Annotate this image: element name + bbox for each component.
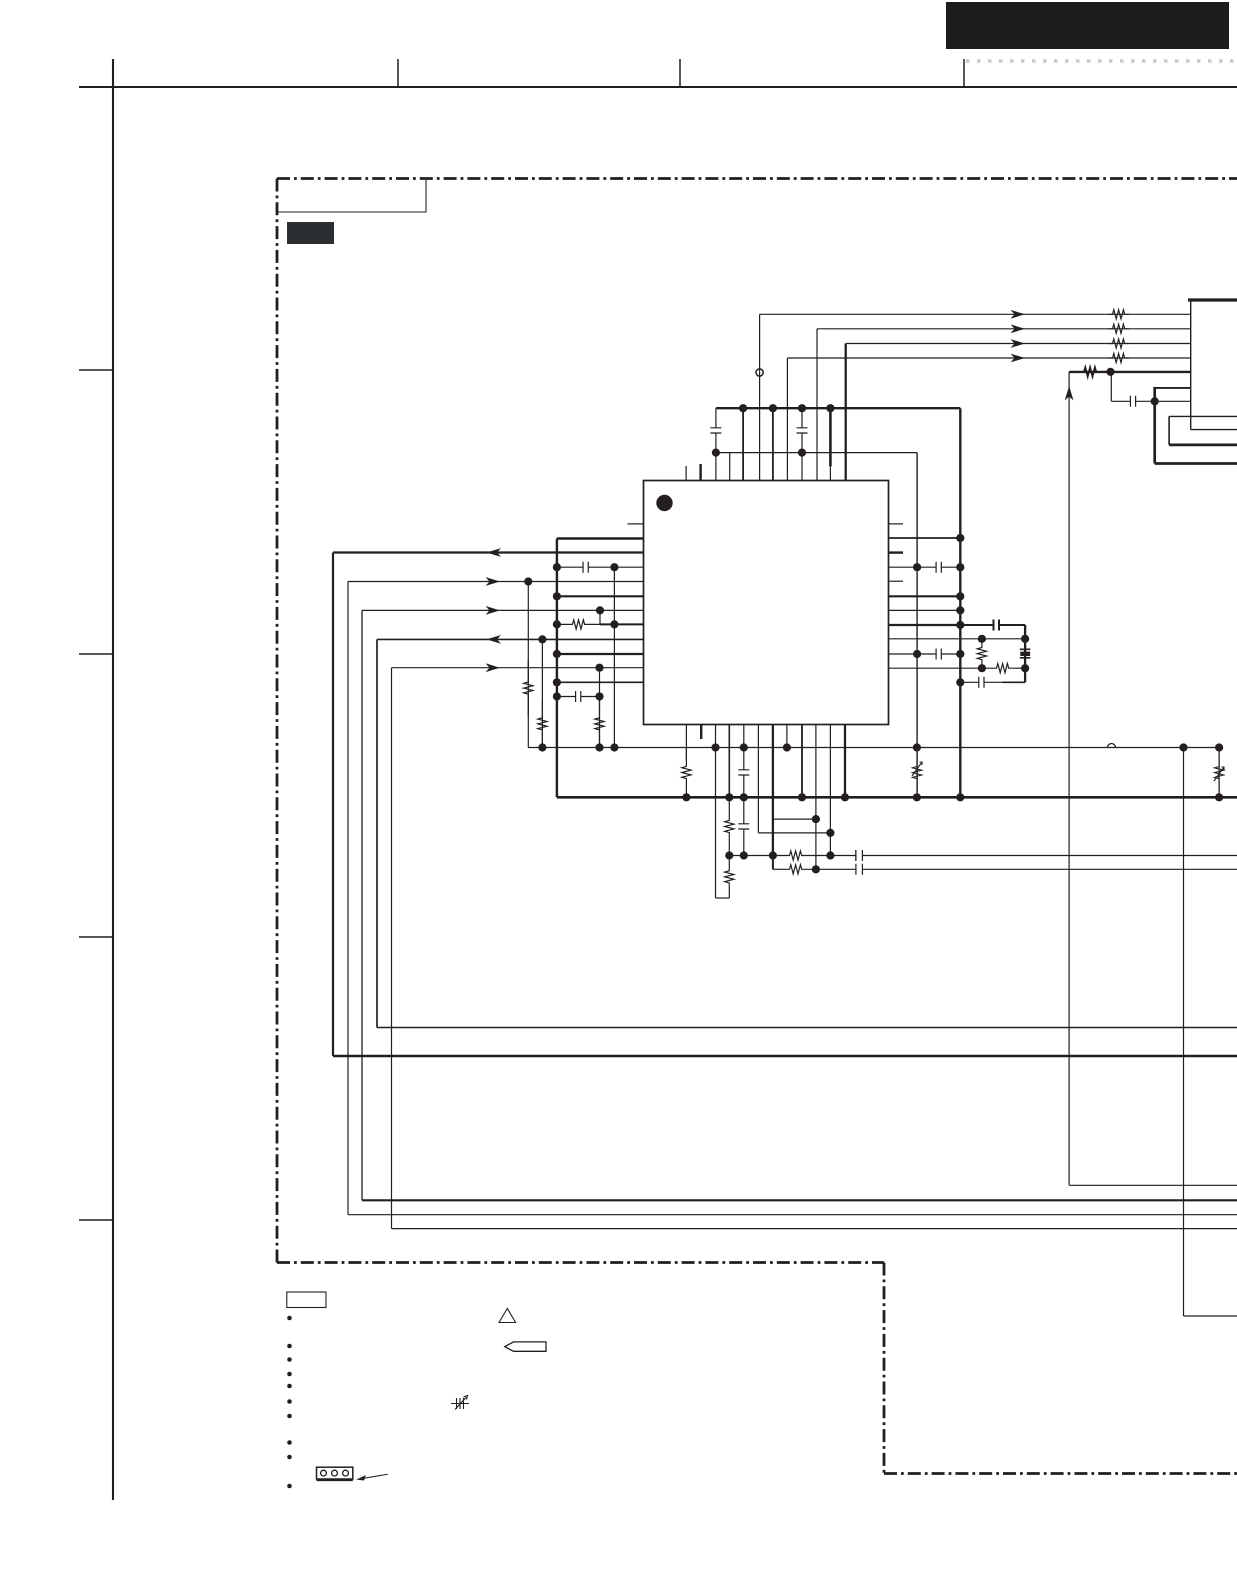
vertical line from W4 junction bbox=[541, 639, 543, 747]
junction bbox=[610, 563, 618, 571]
connector block CN1 top edge thick bbox=[1188, 298, 1237, 301]
junction bbox=[1021, 635, 1029, 643]
varistor RV2 bbox=[1215, 753, 1224, 792]
ic right pin to bus 2 bbox=[889, 595, 961, 597]
vertical line x614 bbox=[613, 567, 615, 747]
wire branch bbox=[773, 818, 816, 820]
arrow A3 bbox=[1011, 339, 1026, 348]
wire A5 cap branch vertical bbox=[1110, 372, 1112, 401]
signal wire A1 vertical bbox=[759, 314, 761, 480]
junction bbox=[978, 664, 986, 672]
ic right pin xtal top thick bbox=[889, 624, 961, 626]
frame tick top 1 bbox=[397, 59, 399, 87]
boundary bottom edge right bbox=[884, 1472, 1237, 1475]
connector block CN1 bottom edge bbox=[1191, 429, 1237, 431]
capacitor C10 plates bbox=[856, 850, 863, 861]
boundary bottom edge left bbox=[277, 1261, 884, 1264]
resistor R13 bbox=[725, 797, 734, 855]
sense wire bottom bbox=[1069, 1184, 1237, 1186]
junction bbox=[553, 620, 561, 628]
ic bottom pin thick bbox=[772, 725, 774, 856]
signal wire W5 bbox=[392, 667, 644, 669]
junction on VDD rail bbox=[826, 404, 834, 412]
wire R6 to ic thick bbox=[600, 623, 644, 625]
junction W2 bbox=[524, 577, 532, 585]
routing W1 vertical bbox=[332, 553, 334, 1057]
wire pin bbox=[742, 408, 744, 480]
wire A5 cap branch horizontal bbox=[1111, 396, 1154, 407]
connector block CN1 left edge bbox=[1190, 300, 1192, 430]
arrow W1 left bbox=[487, 548, 502, 557]
wire cap branch to box bbox=[1155, 400, 1191, 402]
ic bottom pin bbox=[801, 725, 803, 798]
junction W4 bbox=[538, 635, 546, 643]
wire pin bbox=[715, 453, 717, 481]
capacitor C5 bbox=[917, 562, 960, 573]
junction bbox=[956, 678, 964, 686]
ic bottom pin bbox=[786, 725, 788, 748]
title block (redacted) bbox=[946, 2, 1229, 49]
arrow W3 right bbox=[486, 606, 501, 615]
ic U1 pin-1 marker bbox=[656, 495, 672, 511]
ic bottom pin bbox=[743, 725, 745, 748]
arrow A1 bbox=[1011, 310, 1026, 319]
junction bbox=[595, 743, 603, 751]
junction bbox=[956, 621, 964, 629]
junction bbox=[956, 563, 964, 571]
capacitor C7 bbox=[917, 649, 960, 660]
legend bullet 3 bbox=[287, 1357, 292, 1362]
junction on VDD rail bbox=[798, 404, 806, 412]
vertical sense wire with up arrow bbox=[1068, 372, 1070, 1185]
capacitor C11 plates bbox=[855, 864, 863, 875]
vertical line from W2 junction bbox=[527, 582, 529, 748]
ic bottom pin bbox=[757, 725, 759, 833]
capacitor C1 bbox=[710, 408, 721, 452]
junction cap branch bbox=[1151, 397, 1159, 405]
junction bbox=[1179, 743, 1187, 751]
wire lower pair top b bbox=[808, 855, 1237, 857]
wire pin bbox=[772, 408, 774, 480]
resistor R3 bbox=[1108, 339, 1129, 348]
legend bullet 8 bbox=[287, 1440, 292, 1445]
ic bottom pin bbox=[715, 725, 717, 899]
junction bbox=[783, 743, 791, 751]
capacitor C9 bbox=[738, 797, 749, 855]
perforation marks bbox=[966, 59, 1237, 63]
ic left pin thick bbox=[557, 595, 644, 597]
wire pin to C7 bbox=[889, 653, 918, 655]
boundary top edge bbox=[277, 177, 1237, 180]
ic left pin stub bbox=[628, 523, 644, 525]
bus bar bottom thick bbox=[1155, 462, 1237, 465]
bus mid vertical bbox=[916, 453, 918, 798]
junction bbox=[769, 851, 777, 859]
routing W2 horizontal bbox=[348, 1214, 1237, 1216]
wire R11 to xtal bbox=[1015, 667, 1025, 669]
wire pin bbox=[829, 466, 831, 480]
junction bbox=[956, 606, 964, 614]
wire pin stub thick bbox=[699, 464, 701, 481]
signal wire A4 horizontal bbox=[787, 357, 1190, 359]
resistor R16 bbox=[783, 865, 808, 874]
varistor RV1 bbox=[913, 753, 922, 792]
ic bottom pin bbox=[829, 725, 831, 856]
resistor R4 bbox=[1108, 353, 1129, 362]
rail VDD (thick) above IC bbox=[716, 407, 960, 409]
legend connector symbol bbox=[317, 1467, 353, 1479]
frame tick left 2 bbox=[79, 653, 113, 655]
junction on VDD rail bbox=[769, 404, 777, 412]
routing W4 vertical bbox=[376, 639, 378, 1027]
wire rail sub corner bbox=[916, 452, 918, 454]
wire C3 to ic bbox=[614, 566, 643, 568]
junction bbox=[740, 743, 748, 751]
frame tick top 3 bbox=[963, 59, 965, 87]
junction bbox=[1021, 664, 1029, 672]
wire pin to C5 bbox=[889, 566, 918, 568]
junction bbox=[913, 650, 921, 658]
routing W3 vertical bbox=[361, 610, 363, 1200]
wire pin thick stub bbox=[829, 408, 832, 466]
bus bar vertical thick bbox=[1153, 387, 1156, 464]
wire xtal bottom link bbox=[1003, 681, 1026, 683]
rail sub above IC bbox=[716, 452, 917, 454]
routing W1 horizontal thick bbox=[333, 1055, 1237, 1057]
frame vertical border line bbox=[112, 59, 114, 1500]
legend trimmer symbol bbox=[451, 1396, 469, 1410]
wire lower pair bottom bbox=[773, 868, 783, 870]
ic right pin stub bbox=[889, 523, 904, 525]
junction bbox=[740, 851, 748, 859]
junction bbox=[812, 865, 820, 873]
junction bbox=[978, 635, 986, 643]
legend connector pointer arrow bbox=[358, 1474, 388, 1480]
junction bbox=[826, 829, 834, 837]
ic right pin to bus bbox=[889, 537, 961, 539]
junction bbox=[682, 793, 690, 801]
junction bbox=[798, 793, 806, 801]
wire L link bbox=[716, 897, 730, 899]
arrow W5 right bbox=[486, 663, 501, 672]
legend bullet 4 bbox=[287, 1372, 292, 1377]
legend arrow-tag symbol bbox=[505, 1342, 546, 1351]
routing W3 horizontal thick bbox=[362, 1199, 1237, 1201]
junction bbox=[826, 851, 834, 859]
legend bullet 6 bbox=[287, 1399, 292, 1404]
routing W5 vertical bbox=[391, 668, 393, 1229]
arrow A2 bbox=[1011, 324, 1026, 333]
wire pin bbox=[801, 453, 803, 481]
resistor R14 bbox=[725, 856, 734, 899]
arrow A4 bbox=[1011, 354, 1026, 363]
junction bbox=[610, 620, 618, 628]
left bus vertical thick bbox=[556, 539, 558, 798]
varistor RV2 arrow bbox=[1214, 767, 1224, 781]
resistor R12 bbox=[682, 748, 691, 798]
capacitor C8 bbox=[738, 748, 749, 798]
wire drop bbox=[772, 856, 774, 870]
junction bbox=[553, 692, 561, 700]
resistor R15 bbox=[783, 851, 808, 860]
junction bbox=[1215, 793, 1223, 801]
signal wire A1 horizontal bbox=[760, 313, 1191, 315]
legend note box bbox=[287, 1292, 326, 1308]
junction bbox=[538, 743, 546, 751]
ic bottom pin thick stub bbox=[700, 725, 702, 740]
resistor R2 bbox=[1108, 324, 1129, 333]
frame tick left 3 bbox=[79, 936, 113, 938]
wire into CN1 bbox=[1155, 387, 1191, 389]
junction bbox=[913, 793, 921, 801]
frame tick left 4 bbox=[79, 1219, 113, 1221]
boundary step vertical edge bbox=[883, 1263, 886, 1474]
legend bullet 2 bbox=[287, 1344, 292, 1349]
resistor R9 bbox=[595, 700, 604, 748]
junction bbox=[711, 743, 719, 751]
ic right pin stub2 bbox=[889, 580, 904, 582]
resistor R5 bbox=[1078, 367, 1102, 376]
junction bbox=[595, 692, 603, 700]
junction bbox=[553, 563, 561, 571]
legend bullet 1 bbox=[287, 1316, 292, 1321]
capacitor C2 bbox=[797, 408, 808, 452]
junction bbox=[956, 592, 964, 600]
frame tick top 2 bbox=[679, 59, 681, 87]
ic U1 body bbox=[644, 481, 889, 725]
xtal right vertical thick bbox=[1024, 625, 1026, 682]
ic bottom pin thick bbox=[844, 725, 846, 798]
resistor R1 bbox=[1108, 310, 1129, 319]
resistor R11 bbox=[990, 664, 1015, 673]
wire pin stub bbox=[685, 466, 687, 481]
legend triangle symbol bbox=[499, 1309, 516, 1323]
junction bbox=[812, 815, 820, 823]
sheet name callout box bbox=[277, 179, 426, 213]
resistor R8 bbox=[538, 700, 547, 748]
signal wire W1 thick bbox=[333, 551, 644, 553]
junction bbox=[725, 851, 733, 859]
ferrite bead FB1 bbox=[756, 369, 763, 376]
ic bottom pin bbox=[728, 725, 730, 798]
arrow W2 right bbox=[486, 577, 501, 586]
wire R6 link vertical bbox=[599, 610, 601, 624]
inner wire bottom thick bbox=[1169, 444, 1237, 447]
signal wire A5 horizontal thick bbox=[1069, 371, 1191, 373]
routing W4 horizontal bbox=[377, 1027, 1237, 1029]
ic right pin thick stub bbox=[889, 551, 904, 553]
capacitor C3 bbox=[557, 562, 615, 573]
inner wire vertical bbox=[1168, 416, 1170, 445]
signal wire W4 thick bbox=[377, 638, 644, 640]
junction bbox=[610, 743, 618, 751]
inner wire top bbox=[1169, 415, 1237, 417]
junction bbox=[956, 793, 964, 801]
junction bbox=[553, 592, 561, 600]
junction bbox=[956, 534, 964, 542]
junction bbox=[913, 743, 921, 751]
ic left pin row1 thick bbox=[557, 537, 644, 539]
vertical line from W3/W5 junction bbox=[599, 668, 601, 748]
legend bullet 9 bbox=[287, 1455, 292, 1460]
junction A5 bbox=[1106, 368, 1114, 376]
frame tick left 1 bbox=[79, 369, 113, 371]
wire pin bbox=[729, 453, 731, 481]
bus right vertical thick bbox=[959, 408, 961, 797]
rail y747 thin bbox=[528, 747, 1219, 749]
capacitor C6 bbox=[960, 620, 1025, 631]
signal wire A3 vertical bbox=[845, 344, 847, 481]
wire xtal bottom bbox=[960, 677, 1002, 688]
junction bbox=[725, 793, 733, 801]
signal wire A2 vertical bbox=[816, 329, 818, 481]
vertical wire x1219 bbox=[1218, 748, 1220, 798]
junction bbox=[553, 650, 561, 658]
varistor RV1 arrow bbox=[912, 762, 922, 776]
wire lower pair bottom b bbox=[808, 868, 1237, 870]
junction bbox=[553, 678, 561, 686]
ic left pin thick bbox=[557, 653, 644, 655]
signal wire A2 horizontal bbox=[817, 328, 1191, 330]
ic bottom pin bbox=[815, 725, 817, 870]
legend bullet 10 bbox=[287, 1484, 292, 1489]
wire link bbox=[758, 832, 830, 834]
ic bottom pin r12 bbox=[685, 725, 687, 761]
vertical wire x1183 bbox=[1183, 748, 1185, 1317]
junction bbox=[913, 563, 921, 571]
board name label (redacted) bbox=[287, 222, 334, 244]
routing W5 horizontal bbox=[392, 1228, 1237, 1230]
resistor R10 bbox=[977, 639, 986, 668]
ic left pin bbox=[557, 681, 644, 683]
junction on sub rail bbox=[712, 449, 720, 457]
junction bbox=[956, 650, 964, 658]
signal wire A3 horizontal bbox=[846, 343, 1191, 345]
frame horizontal border line bbox=[79, 86, 1237, 88]
arrow up on sense wire bbox=[1065, 386, 1074, 401]
ferrite bead FB2 bbox=[1108, 744, 1116, 748]
routing W2 vertical bbox=[347, 582, 349, 1215]
legend bullet 5 bbox=[287, 1384, 292, 1389]
signal wire W2 bbox=[348, 581, 644, 583]
junction bbox=[740, 793, 748, 801]
signal wire W3 bbox=[362, 609, 644, 611]
resistor R6 bbox=[557, 620, 600, 629]
boundary left edge bbox=[276, 179, 279, 1263]
resistor R7 bbox=[524, 660, 533, 716]
junction W3 bbox=[596, 606, 604, 614]
signal wire A4 vertical bbox=[786, 358, 788, 481]
junction on VDD rail bbox=[739, 404, 747, 412]
wire lower pair top bbox=[729, 855, 783, 857]
arrow W4 left bbox=[487, 635, 502, 644]
wire xtal mid bottom bbox=[889, 667, 991, 669]
wire x1183 bottom bbox=[1184, 1315, 1237, 1317]
capacitor C4 bbox=[557, 691, 600, 702]
junction W5 bbox=[595, 664, 603, 672]
junction bbox=[1215, 743, 1223, 751]
ic right pin to bus 3 bbox=[889, 609, 961, 611]
junction bbox=[841, 793, 849, 801]
legend bullet 7 bbox=[287, 1414, 292, 1419]
wire xtal mid top bbox=[889, 638, 1026, 640]
rail GND thick bbox=[557, 796, 1237, 799]
junction on sub rail bbox=[798, 449, 806, 457]
crystal X1 bbox=[1020, 649, 1031, 658]
